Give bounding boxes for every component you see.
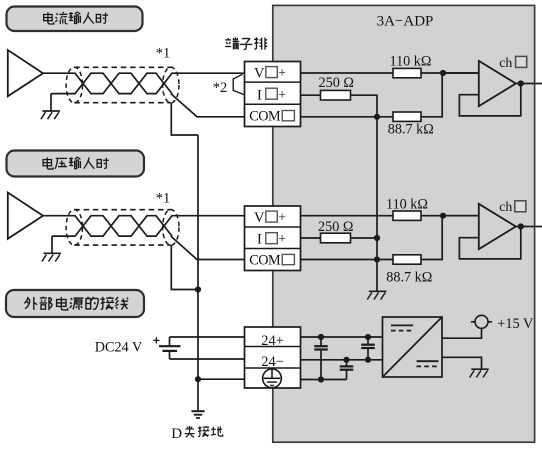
svg-text:110 kΩ: 110 kΩ xyxy=(386,196,428,212)
svg-text:COM: COM xyxy=(249,109,281,125)
svg-text:+15 V: +15 V xyxy=(497,316,534,332)
svg-text:D: D xyxy=(171,426,182,442)
svg-text:24−: 24− xyxy=(261,354,284,370)
svg-text:250 Ω: 250 Ω xyxy=(318,219,353,235)
svg-text:+: + xyxy=(278,209,286,224)
svg-text:24+: 24+ xyxy=(261,333,284,349)
svg-text:DC24 V: DC24 V xyxy=(95,340,143,356)
svg-text:ch: ch xyxy=(499,55,512,70)
svg-text:COM: COM xyxy=(249,253,281,269)
svg-text:+: + xyxy=(278,231,286,246)
svg-text:*2: *2 xyxy=(213,80,228,96)
svg-text:+: + xyxy=(278,65,286,80)
svg-text:110 kΩ: 110 kΩ xyxy=(390,53,432,69)
svg-text:88.7 kΩ: 88.7 kΩ xyxy=(386,270,432,286)
svg-text:ch: ch xyxy=(499,199,512,214)
svg-text:I: I xyxy=(257,232,262,248)
svg-text:88.7 kΩ: 88.7 kΩ xyxy=(388,121,434,137)
svg-text:*1: *1 xyxy=(156,46,171,62)
svg-text:V: V xyxy=(254,210,265,226)
svg-text:*1: *1 xyxy=(156,191,171,207)
svg-text:I: I xyxy=(257,88,262,104)
svg-text:250 Ω: 250 Ω xyxy=(319,75,354,91)
svg-text:V: V xyxy=(254,66,265,82)
svg-text:+: + xyxy=(278,87,286,102)
svg-text:3A−ADP: 3A−ADP xyxy=(377,13,434,29)
